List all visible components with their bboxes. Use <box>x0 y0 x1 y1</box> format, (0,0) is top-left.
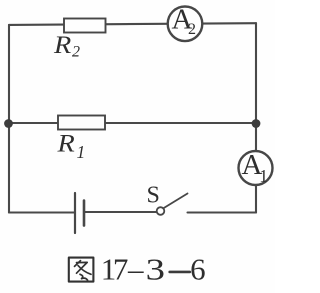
node junction left <box>4 119 13 128</box>
battery long plate <box>74 193 76 233</box>
wire left vertical <box>8 25 10 213</box>
svg-text:6: 6 <box>190 252 206 287</box>
svg-text:R: R <box>56 129 74 157</box>
ammeter A1 <box>239 151 273 185</box>
caption glyph 图 <box>69 258 94 282</box>
svg-text:–: – <box>127 252 144 287</box>
svg-text:2: 2 <box>188 21 196 38</box>
battery short plate <box>83 201 86 226</box>
wire bottom middle segment <box>84 211 156 213</box>
wire top horizontal <box>9 23 256 25</box>
switch S pivot <box>157 207 165 215</box>
svg-text:7: 7 <box>113 252 128 287</box>
resistor R1 <box>58 116 105 130</box>
ammeter A2 <box>168 7 203 42</box>
svg-text:R: R <box>53 31 71 59</box>
wire bottom right segment <box>188 211 257 213</box>
wire right vertical <box>255 23 257 212</box>
svg-text:1: 1 <box>259 166 268 186</box>
svg-text:1: 1 <box>77 142 86 162</box>
svg-text:3: 3 <box>146 252 165 286</box>
svg-text:2: 2 <box>72 44 80 61</box>
switch S lever <box>164 194 188 209</box>
node junction right <box>252 119 261 128</box>
svg-text:S: S <box>147 183 160 209</box>
resistor R2 <box>64 19 106 33</box>
wire bottom left segment <box>9 211 75 213</box>
wire middle horizontal <box>9 122 256 124</box>
